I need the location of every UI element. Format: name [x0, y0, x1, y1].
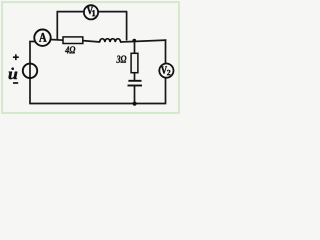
inductor coil L: [100, 39, 121, 42]
wire: bottom rail: [29, 103, 166, 105]
source U: circle with line through: [23, 64, 37, 78]
capacitor C: [128, 81, 143, 86]
label: U dot phasor voltage: [9, 67, 18, 79]
resistor 4ohm: [63, 37, 83, 44]
voltmeter V2: [159, 64, 173, 78]
wire: resistor 4ohm to inductor: [83, 41, 101, 42]
label: minus polarity mark: [13, 82, 18, 84]
wire: voltmeter V1 branch right vertical: [126, 12, 128, 41]
wire: voltmeter V1 branch left vertical: [56, 12, 58, 41]
wire: 3ohm branch upper: [134, 41, 136, 54]
label 3ohm: [116, 56, 126, 63]
wire: capacitor to bottom rail: [134, 86, 136, 104]
wire: voltmeter V1 branch top horizontal: [57, 11, 128, 13]
node junction: top of 3ohm branch: [132, 39, 136, 43]
label 4ohm: [65, 46, 75, 53]
label: plus polarity mark: [13, 54, 19, 60]
wire: left rail: [29, 42, 31, 104]
voltmeter V1: [84, 5, 98, 19]
resistor 3ohm: [131, 53, 138, 72]
wire: ammeter to resistor 4ohm: [51, 39, 64, 42]
wire: top-left stub to ammeter: [29, 41, 36, 43]
wire: right rail: [165, 39, 167, 103]
wire: inductor to right rail: [120, 40, 166, 42]
ammeter A1: [34, 30, 50, 46]
node junction: bottom of capacitor branch: [133, 102, 137, 106]
wire: 3ohm to capacitor: [134, 73, 136, 81]
